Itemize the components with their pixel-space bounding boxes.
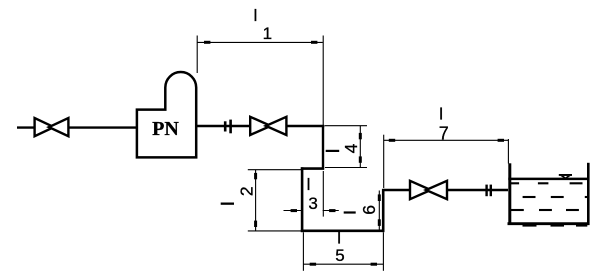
dimension l4 ticks bbox=[359, 133, 362, 139]
svg-text:l: l bbox=[439, 105, 443, 124]
union F2 bbox=[487, 185, 491, 197]
wire: pump outlet pipe bbox=[197, 125, 250, 127]
label l6 bbox=[344, 211, 356, 213]
dimension l1 ticks bbox=[204, 41, 210, 44]
valve V1 bbox=[35, 118, 69, 136]
sump bottom edge bbox=[301, 230, 385, 233]
svg-text:3: 3 bbox=[308, 194, 317, 213]
dimension l3 ticks bbox=[291, 209, 297, 212]
svg-text:l: l bbox=[307, 175, 311, 194]
wire: outlet pipe to valve V3 bbox=[384, 189, 411, 191]
wire: inlet pipe left bbox=[17, 126, 35, 128]
svg-text:l: l bbox=[254, 6, 258, 25]
svg-text:5: 5 bbox=[335, 246, 344, 265]
svg-text:2: 2 bbox=[237, 186, 257, 196]
svg-text:1: 1 bbox=[263, 24, 272, 43]
sump top edge bbox=[301, 167, 324, 170]
dimension l6 lines bbox=[378, 191, 380, 231]
wire: pipe valve V2 to riser bbox=[287, 125, 325, 127]
tank left wall bbox=[508, 163, 511, 225]
svg-text:7: 7 bbox=[439, 123, 449, 143]
pump PN outline bbox=[137, 72, 196, 157]
sump left edge bbox=[301, 167, 304, 232]
tank water dashes bbox=[509, 183, 587, 225]
dimension l5 lines bbox=[303, 232, 383, 270]
tank bottom bbox=[508, 222, 590, 225]
dimension l5 ticks bbox=[310, 263, 316, 266]
wire: pipe valve V1 to pump bbox=[69, 126, 138, 128]
svg-text:4: 4 bbox=[341, 143, 361, 153]
dimension l7 lines bbox=[384, 135, 509, 188]
tank right wall bbox=[587, 163, 590, 225]
dimension l2 ticks bbox=[254, 173, 257, 179]
label l2 bbox=[221, 203, 234, 205]
dimension l2 lines bbox=[248, 170, 302, 231]
svg-text:l: l bbox=[337, 228, 341, 247]
wire: pipe valve V3 to tank bbox=[448, 189, 509, 191]
svg-text:6: 6 bbox=[359, 205, 379, 215]
union F1 bbox=[225, 120, 230, 134]
sump right edge bbox=[382, 189, 385, 232]
dimension l6 ticks bbox=[378, 194, 381, 201]
dimension l1 line bbox=[197, 36, 323, 127]
water level symbol bbox=[559, 174, 572, 179]
valve V3 bbox=[410, 181, 447, 199]
wire: riser pipe vertical bbox=[322, 126, 324, 169]
dimension l7 ticks bbox=[389, 139, 395, 142]
tank water line bbox=[508, 178, 587, 181]
svg-text:PN: PN bbox=[152, 118, 179, 140]
label l4 bbox=[326, 150, 340, 152]
dimension l4 lines bbox=[325, 126, 368, 168]
dimension l3 lines bbox=[284, 171, 339, 217]
valve V2 bbox=[250, 117, 286, 135]
